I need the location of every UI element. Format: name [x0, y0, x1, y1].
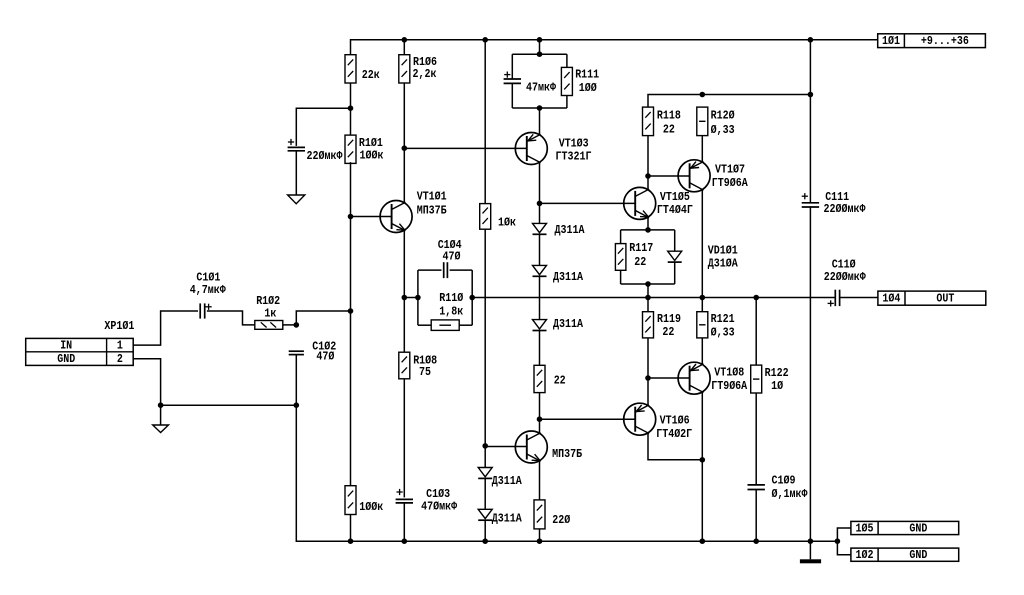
- svg-text:C1Ø9: C1Ø9: [772, 473, 796, 487]
- wire VT107 base: [648, 175, 690, 177]
- terminal 102 GND: [851, 548, 959, 561]
- node input junction: [348, 308, 354, 314]
- wire pin1 to C101: [133, 311, 198, 345]
- svg-text:GND: GND: [57, 352, 75, 366]
- svg-text:ГТ9Ø6А: ГТ9Ø6А: [712, 176, 749, 190]
- wire C100 to ground: [295, 151, 297, 195]
- wire base tap to VT103: [404, 147, 527, 149]
- wire C110 to terminal 104: [840, 297, 878, 299]
- capacitor C101 4,7uF: [200, 303, 205, 318]
- node box left: [415, 295, 421, 301]
- svg-text:22: 22: [663, 123, 675, 137]
- svg-text:R122: R122: [765, 366, 789, 380]
- wire output to R122: [755, 298, 757, 366]
- svg-text:Д311А: Д311А: [492, 474, 522, 488]
- svg-text:МП37Б: МП37Б: [552, 447, 582, 461]
- wire rail to RC group: [539, 40, 541, 54]
- wire VT108 collector down to rail: [701, 392, 703, 541]
- wire upper rail branch y94.5: [648, 95, 810, 108]
- wire VT103 emitter to VT105 base: [540, 202, 636, 204]
- svg-text:IN: IN: [60, 338, 72, 352]
- wire rail to 10k: [484, 40, 486, 204]
- svg-text:R12Ø: R12Ø: [711, 109, 735, 123]
- wire R121 to VT108 emitter: [701, 338, 703, 365]
- node base VT101: [348, 214, 354, 220]
- svg-text:VT1Ø6: VT1Ø6: [660, 413, 690, 427]
- svg-text:ГТ321Г: ГТ321Г: [556, 149, 592, 163]
- wire left branch C: [511, 54, 513, 79]
- node VT108 base: [645, 375, 651, 381]
- svg-text:Д31ØА: Д31ØА: [708, 257, 738, 271]
- wire box117 right upper: [674, 230, 676, 251]
- terminal 101 +9...+36: [878, 34, 986, 48]
- capacitor 47uF: [504, 79, 521, 83]
- resistor R118: [643, 107, 654, 136]
- resistor R122 10: [751, 365, 762, 393]
- wire node up to base line: [296, 311, 350, 325]
- connector XP101: [26, 338, 134, 365]
- terminal 105 GND: [851, 521, 959, 534]
- wire 100k to ground rail: [350, 515, 352, 542]
- svg-text:1Ø2: 1Ø2: [856, 548, 874, 562]
- wire C to box bottom: [511, 83, 513, 108]
- wire to terminal 105: [837, 528, 851, 541]
- svg-text:GND: GND: [909, 548, 927, 562]
- node RC bottom: [537, 105, 543, 111]
- svg-text:Д311А: Д311А: [555, 223, 585, 237]
- wire base node to D4: [484, 446, 486, 468]
- svg-text:22ØØмкФ: 22ØØмкФ: [824, 202, 867, 216]
- capacitor C102 470: [289, 351, 304, 354]
- wire VT103 emitter down: [539, 162, 541, 203]
- transistor VT105: [624, 187, 656, 219]
- wire box top branch: [418, 269, 442, 271]
- wire R102 to node: [283, 324, 297, 326]
- wire VT106 collector up: [647, 378, 649, 406]
- svg-text:VT1Ø7: VT1Ø7: [715, 162, 745, 176]
- wire box117 to output node: [647, 284, 649, 298]
- wire C103 to ground rail: [403, 503, 405, 541]
- wire R122 to C109: [755, 393, 757, 485]
- svg-text:Д311А: Д311А: [553, 317, 583, 331]
- wire D5 to rail: [484, 520, 486, 541]
- svg-text:22к: 22к: [362, 68, 380, 82]
- wire C101 to R102: [207, 311, 255, 325]
- wire R111 to box bottom: [566, 96, 568, 109]
- resistor R101: [345, 135, 356, 163]
- wire VT102 emitter to R220: [539, 461, 541, 500]
- plus C111: [802, 193, 808, 199]
- node R119 top: [645, 295, 651, 301]
- wire emitter node to box: [404, 297, 418, 299]
- wire R118 to base node: [647, 136, 649, 176]
- svg-text:OUT: OUT: [936, 292, 955, 306]
- svg-text:4,7мкФ: 4,7мкФ: [190, 283, 227, 297]
- node VT102 base: [482, 443, 488, 449]
- svg-text:1Ø: 1Ø: [771, 379, 783, 393]
- wire R120 to VT107 emitter: [701, 136, 703, 162]
- node VT103 base tap: [402, 145, 408, 151]
- wire R119 to VT108 base node: [647, 338, 649, 378]
- wire VT101 base: [351, 216, 392, 218]
- svg-text:1,8к: 1,8к: [439, 305, 463, 319]
- node A: [348, 105, 354, 111]
- svg-text:VT1Ø1: VT1Ø1: [417, 190, 447, 204]
- wire R108 to C103: [403, 379, 405, 498]
- wire R110 to box right: [459, 324, 472, 326]
- node top rail junctions: [402, 37, 814, 43]
- wire box117 bottom: [621, 283, 675, 285]
- node pin2 gnd: [158, 402, 164, 408]
- wire VT101 emitter to R108: [403, 230, 405, 352]
- capacitor 220uF: [288, 147, 305, 150]
- svg-text:R119: R119: [657, 312, 681, 326]
- svg-text:1ØØк: 1ØØк: [360, 148, 384, 162]
- plus C101: [206, 304, 212, 310]
- resistor 10k: [480, 204, 491, 230]
- capacitor C109 0,1uF: [748, 485, 765, 490]
- wire box bottom branch: [418, 324, 431, 326]
- svg-text:МП37Б: МП37Б: [417, 204, 447, 218]
- wire RC box top: [512, 53, 567, 55]
- wire output node horizontal: [472, 297, 835, 299]
- svg-text:+9...+36: +9...+36: [921, 34, 969, 48]
- svg-text:R117: R117: [629, 241, 653, 255]
- resistor R111: [566, 54, 568, 67]
- resistor R121 0,33: [701, 298, 703, 312]
- plus C110: [828, 300, 834, 306]
- wire box117 left lower: [620, 270, 622, 284]
- capacitor C111 2200uF: [802, 203, 819, 207]
- transistor VT101: [380, 201, 412, 233]
- plus C100: [288, 139, 294, 145]
- wire VT105 emitter down: [647, 217, 649, 230]
- wire VT108 base: [648, 377, 690, 379]
- resistor R110 1,8k: [431, 320, 459, 331]
- node R121 top: [700, 295, 706, 301]
- node VT102 collector: [537, 416, 543, 422]
- resistor R108: [399, 352, 410, 379]
- svg-text:1Ø4: 1Ø4: [882, 292, 901, 306]
- node ground rail junctions: [348, 538, 841, 544]
- node emitter to box: [645, 227, 651, 233]
- wire D2 to D3: [539, 276, 541, 319]
- capacitor C110 2200uF: [835, 290, 839, 306]
- svg-text:47Ø: 47Ø: [316, 349, 335, 363]
- resistor 22 mid: [534, 365, 545, 392]
- ground symbol input: [153, 425, 169, 433]
- wire C109 to rail: [755, 490, 757, 542]
- capacitor C103 470uF: [396, 499, 413, 503]
- wire C104 to box right: [450, 269, 473, 271]
- svg-text:ГТ4Ø4Г: ГТ4Ø4Г: [657, 203, 693, 217]
- wire VT106 emitter down: [648, 433, 702, 460]
- wire rail to R106: [403, 40, 405, 55]
- wire C102 down to ground rail corner: [296, 355, 837, 542]
- diode D311A #5: [478, 509, 492, 520]
- wire RC box bottom: [512, 107, 567, 109]
- svg-text:R111: R111: [575, 68, 599, 82]
- svg-text:47мкФ: 47мкФ: [526, 80, 556, 94]
- wire rail to C111: [809, 40, 811, 202]
- diode D311A #4: [478, 468, 492, 479]
- capacitor C104 470: [444, 262, 448, 278]
- wire gnd horizontal: [161, 404, 297, 406]
- resistor 100k bottom: [345, 486, 356, 515]
- wire to terminal 102: [837, 541, 851, 555]
- ground symbol left: [288, 195, 305, 204]
- wire pin2 down: [133, 359, 160, 425]
- node RC top: [537, 51, 543, 57]
- svg-text:ГТ9Ø6А: ГТ9Ø6А: [711, 379, 748, 393]
- wire 10k down to VT102 base: [484, 229, 486, 446]
- svg-text:47Ø: 47Ø: [443, 250, 462, 264]
- svg-text:1Øк: 1Øк: [498, 216, 516, 230]
- svg-text:VT1Ø3: VT1Ø3: [559, 137, 589, 151]
- diode VD101 D310A: [668, 251, 682, 262]
- wire box117 left upper: [620, 230, 622, 244]
- transistor VT103: [515, 133, 547, 165]
- resistor 22k: [345, 55, 356, 83]
- wire collector node to VT106 base: [540, 418, 636, 420]
- wire R101 down input column: [350, 162, 352, 486]
- svg-text:XP1Ø1: XP1Ø1: [104, 319, 134, 333]
- svg-text:22Ø: 22Ø: [552, 513, 571, 527]
- svg-text:1Ø1: 1Ø1: [882, 34, 900, 48]
- terminal 104 OUT: [878, 291, 986, 305]
- node R102 out: [294, 322, 300, 328]
- node R122 top: [753, 295, 759, 301]
- svg-text:Ø,1мкФ: Ø,1мкФ: [772, 487, 809, 501]
- svg-text:R118: R118: [657, 109, 681, 123]
- wire R22 to VT102 collector node: [539, 393, 541, 434]
- wire VT105 collector up: [647, 176, 649, 190]
- resistor R119 22: [647, 298, 649, 312]
- wire C111 down to rail: [809, 207, 811, 541]
- node VT107 base: [645, 173, 651, 179]
- svg-text:GND: GND: [909, 521, 927, 535]
- wire VT107 collector down: [701, 190, 703, 298]
- diode D311A #2: [533, 265, 547, 276]
- wire D4 to D5: [484, 478, 486, 509]
- wire box117 right lower: [674, 262, 676, 284]
- ground chassis bar: [800, 559, 821, 563]
- transistor VT106: [624, 403, 656, 435]
- svg-text:47ØмкФ: 47ØмкФ: [421, 500, 458, 514]
- svg-text:VT1Ø8: VT1Ø8: [714, 366, 744, 380]
- svg-text:22: 22: [554, 374, 566, 388]
- svg-text:1к: 1к: [264, 307, 276, 321]
- node VT103 emitter: [537, 201, 543, 207]
- plus C103: [397, 489, 403, 495]
- svg-text:R121: R121: [711, 312, 735, 326]
- wire emitter to D1: [539, 203, 541, 223]
- svg-text:Д311А: Д311А: [553, 270, 583, 284]
- svg-text:1ØØ: 1ØØ: [579, 81, 598, 95]
- svg-text:2: 2: [117, 352, 123, 366]
- svg-text:Д311А: Д311А: [492, 512, 522, 526]
- node VT106 emitter join: [700, 457, 706, 463]
- wire 22k to R101: [350, 83, 352, 135]
- resistor R120 0,33: [697, 107, 708, 136]
- resistor R106: [399, 55, 410, 83]
- transistor VT102: [515, 431, 547, 463]
- wire box right side: [471, 270, 473, 325]
- node box117 bottom: [645, 281, 651, 287]
- diode D311A #3: [533, 320, 547, 331]
- wire D3 to R 22: [539, 331, 541, 366]
- svg-text:1: 1: [117, 338, 123, 352]
- svg-text:R11Ø: R11Ø: [439, 291, 463, 305]
- svg-text:2,2к: 2,2к: [413, 67, 437, 81]
- wire rail to chassis: [809, 541, 811, 559]
- svg-text:22ØмкФ: 22ØмкФ: [307, 149, 344, 163]
- svg-text:75: 75: [419, 365, 431, 379]
- wire D1 to D2: [539, 234, 541, 265]
- svg-text:1Ø5: 1Ø5: [856, 521, 874, 535]
- wire R106 to VT101 collector: [403, 83, 405, 203]
- wire to C100: [296, 108, 350, 146]
- wire box left side: [417, 270, 419, 325]
- svg-text:Ø,33: Ø,33: [711, 325, 735, 339]
- node R120 top: [700, 92, 706, 98]
- node ground wire left: [294, 402, 300, 408]
- wire 220 to rail: [539, 529, 541, 541]
- wire +V top rail: [351, 40, 878, 55]
- resistor R117 22: [615, 244, 626, 271]
- resistor R102 1k: [255, 321, 283, 330]
- svg-text:22: 22: [634, 255, 646, 269]
- node feedback on emitter: [402, 295, 408, 301]
- svg-text:Ø,33: Ø,33: [711, 123, 735, 137]
- node C111 branch: [808, 92, 814, 98]
- svg-text:22: 22: [662, 325, 674, 339]
- wire to VT103 collector: [539, 108, 541, 135]
- node box right: [469, 295, 475, 301]
- wire VT102 base: [485, 446, 527, 448]
- svg-text:ГТ4Ø2Г: ГТ4Ø2Г: [656, 427, 692, 441]
- resistor 220: [534, 500, 545, 529]
- svg-text:22ØØмкФ: 22ØØмкФ: [824, 270, 867, 284]
- transistor VT107: [678, 160, 710, 192]
- transistor VT108: [678, 362, 710, 394]
- svg-text:1ØØк: 1ØØк: [359, 500, 383, 514]
- diode D311A #1: [533, 223, 547, 234]
- plus 47uF: [504, 72, 510, 78]
- wire box117 top: [621, 229, 675, 231]
